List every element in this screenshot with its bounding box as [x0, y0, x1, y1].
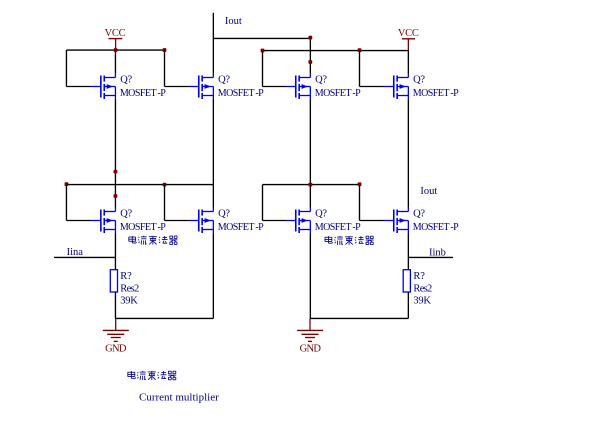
transistor Q1 (MOSFET-P): [91, 74, 115, 99]
svg-text:MOSFET -P: MOSFET -P: [315, 222, 361, 233]
wire Iout vertical: [212, 13, 214, 74]
svg-text:Iina: Iina: [67, 247, 84, 258]
svg-text:VCC: VCC: [105, 28, 126, 39]
svg-text:MOSFET -P: MOSFET -P: [120, 222, 166, 233]
svg-text:Q?: Q?: [413, 209, 425, 220]
power symbol VCC2 VCC: [398, 28, 419, 51]
svg-text:MOSFET -P: MOSFET -P: [413, 222, 459, 233]
power symbol VCC1 VCC: [105, 28, 126, 50]
junction rail left corner to Q3 gate: [261, 49, 265, 53]
wire Iinb input: [408, 256, 453, 258]
svg-text:MOSFET -P: MOSFET -P: [218, 88, 264, 99]
svg-text:Iinb: Iinb: [429, 247, 446, 258]
transistor Q4 (MOSFET-P): [384, 74, 408, 99]
wire Q7 source down to ground rail: [309, 233, 311, 318]
wire down to Q7 gate: [263, 185, 286, 221]
svg-text:MOSFET -P: MOSFET -P: [413, 88, 459, 99]
junction mirror-left rail to Q6 gate: [163, 183, 167, 187]
wire Q1 source to Q5 drain: [114, 99, 116, 208]
wire Q1 drain to rail: [114, 50, 116, 74]
transistor Q6 (MOSFET-P): [189, 208, 213, 233]
ground symbol GND1: [103, 318, 129, 354]
svg-text:Res2: Res2: [413, 283, 432, 294]
wire left ground rail: [115, 317, 213, 319]
transistor Q5 (MOSFET-P): [91, 208, 115, 233]
svg-text:R?: R?: [120, 271, 132, 282]
svg-text:GND: GND: [105, 343, 127, 354]
node dot on Q1-Q5 wire upper: [114, 170, 118, 174]
svg-text:Q?: Q?: [218, 75, 230, 86]
svg-text:R?: R?: [413, 271, 425, 282]
junction Iout wire corner: [308, 36, 312, 40]
wire Q4 source to Q8 drain: [407, 99, 409, 208]
wire Iout horizontal to Q3 drain: [213, 37, 310, 39]
svg-text:MOSFET -P: MOSFET -P: [315, 88, 361, 99]
caption Q7 电流乘法器: [325, 236, 374, 245]
wire Iina input: [54, 256, 115, 258]
wire mirror-left gate rail horizontal: [66, 184, 213, 186]
wire Q2 source to Q6 drain: [212, 99, 214, 208]
wire rail down to Q4 gate: [360, 51, 384, 87]
wire down to Q8 gate: [360, 185, 384, 221]
svg-text:Iout: Iout: [225, 16, 242, 27]
wire down to Q6 gate: [165, 185, 189, 221]
wire down to Q5 gate: [66, 185, 91, 221]
transistor Q2 (MOSFET-P): [189, 74, 213, 99]
svg-text:Q?: Q?: [218, 209, 230, 220]
svg-text:GND: GND: [300, 344, 322, 355]
wire left rail down to Q1 gate: [66, 50, 91, 86]
junction mirror-right rail to Q8 gate: [358, 182, 362, 186]
resistor R2 Res2: [403, 270, 410, 292]
svg-text:MOSFET -P: MOSFET -P: [120, 88, 166, 99]
transistor Q8 (MOSFET-P): [384, 208, 408, 233]
wire VCC-left rail horizontal: [66, 49, 164, 51]
junction rail to Q4 gate: [358, 48, 362, 52]
svg-text:VCC: VCC: [398, 28, 419, 39]
svg-text:39K: 39K: [120, 296, 138, 307]
wire Q3 source to Q7 drain: [309, 99, 311, 208]
wire Q4 drain to rail: [407, 51, 409, 74]
wire Q3 drain vertical: [309, 38, 311, 74]
junction mirror-left rail corner: [65, 182, 69, 186]
svg-text:Q?: Q?: [413, 75, 425, 86]
svg-text:Q?: Q?: [315, 75, 327, 86]
svg-text:Q?: Q?: [315, 209, 327, 220]
ground symbol GND2: [297, 318, 323, 354]
svg-text:MOSFET -P: MOSFET -P: [218, 222, 264, 233]
node dot on Q1-Q5 wire lower: [114, 194, 118, 198]
wire Q5 source to R1: [114, 233, 116, 270]
junction rail corner to Q2 gate: [163, 48, 167, 52]
node Q3 drain segment dot: [308, 60, 312, 64]
wire mirror-right gate rail horizontal: [263, 184, 360, 186]
wire R2 to ground rail: [407, 292, 409, 318]
transistor Q7 (MOSFET-P): [286, 208, 310, 233]
svg-text:39K: 39K: [413, 296, 431, 307]
svg-text:Iout: Iout: [420, 186, 437, 197]
wire VCC-right rail horizontal: [263, 50, 409, 52]
svg-text:Res2: Res2: [120, 283, 139, 294]
wire R1 to ground rail: [114, 292, 116, 318]
caption 电流乘法器 bottom: [128, 371, 176, 380]
svg-text:Q?: Q?: [120, 209, 132, 220]
svg-text:Q?: Q?: [120, 75, 132, 86]
wire rail down to Q3 gate: [263, 51, 286, 87]
junction VCC1/Q1 drain: [114, 48, 118, 52]
transistor Q3 (MOSFET-P): [286, 74, 310, 99]
wire rail down to Q2 gate: [165, 50, 189, 86]
wire Q8 source to R2: [407, 233, 409, 270]
caption Q5 电流乘法器: [129, 236, 178, 245]
junction Q3 source rail: [308, 183, 312, 187]
svg-text:Current multiplier: Current multiplier: [139, 391, 219, 403]
resistor R1 Res2: [110, 270, 117, 292]
wire right ground rail: [310, 317, 408, 319]
wire Q6 source down to ground rail: [212, 233, 214, 318]
